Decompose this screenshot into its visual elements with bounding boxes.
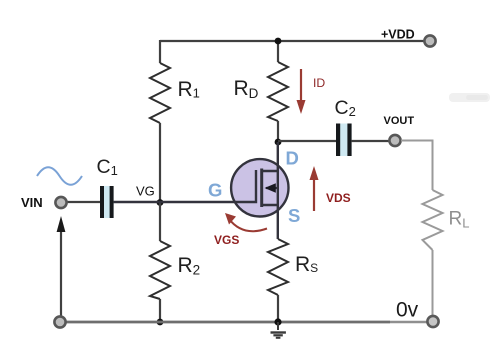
wire drain-source vertical through circle down to RS [277, 142, 279, 239]
wire RS bottom lead [277, 295, 279, 322]
wire R1 top lead [159, 40, 161, 63]
capacitor C1 [100, 186, 114, 218]
resistor RD [268, 62, 288, 121]
resistor R1 [150, 63, 170, 123]
transistor Q1 body arrow [265, 183, 279, 192]
svg-text:D: D [286, 148, 299, 169]
node junction dot top rail / RD [275, 38, 282, 45]
resistor RL [423, 190, 443, 250]
wire VOUT to RL (gray load branch) [401, 141, 433, 191]
wire VIN terminal to C1 [66, 201, 100, 203]
terminal +VDD [424, 35, 435, 46]
wire bottom rail [60, 321, 390, 324]
wire drain node to C2 [278, 140, 336, 142]
resistor RS [268, 239, 288, 295]
resistor R2 [150, 241, 170, 299]
svg-text:S: S [288, 205, 300, 226]
terminal bottom-left [54, 316, 65, 327]
node drain junction dot [275, 139, 282, 146]
wire RL bottom to 0v terminal [432, 250, 434, 316]
terminal 0v [427, 316, 438, 327]
wire RD bottom to drain node [277, 121, 279, 142]
faint ghost mark (editing remnant) [449, 93, 490, 102]
transistor Q1 drain stub [262, 170, 278, 172]
terminal VIN [55, 197, 66, 208]
wire R1 bottom to VG node [159, 123, 161, 203]
transistor Q1 channel bar [260, 169, 263, 208]
current arrow ID [297, 69, 306, 114]
wire gate lead and gate electrode bar [113, 170, 256, 202]
svg-text:0v: 0v [396, 299, 419, 322]
svg-text:VDS: VDS [326, 191, 351, 205]
wire top rail from R1 top to +VDD [160, 40, 424, 42]
ground symbol [271, 322, 286, 339]
transistor Q1 MOSFET body circle [231, 159, 288, 216]
svg-text:VIN: VIN [21, 195, 43, 210]
wire C2 to VOUT terminal [352, 140, 389, 142]
wire R2 bottom lead [159, 299, 161, 322]
svg-text:G: G [208, 180, 222, 201]
svg-text:VGS: VGS [214, 233, 239, 247]
node VG junction dot [157, 199, 164, 206]
arrow input direction up [57, 216, 66, 322]
terminal VOUT [389, 135, 400, 146]
wire VG node down to R2 [159, 203, 161, 241]
arrow VGS curved [225, 213, 267, 231]
svg-text:ID: ID [313, 76, 325, 90]
arrow VDS [310, 166, 319, 211]
node junction dot R2-bottom rail [157, 319, 164, 326]
capacitor C2 [336, 124, 352, 157]
svg-text:+VDD: +VDD [381, 28, 415, 42]
node ground junction dot [274, 318, 281, 325]
sine wave source icon [37, 167, 82, 185]
svg-text:VG: VG [136, 184, 155, 199]
wire RD top lead [277, 41, 279, 62]
transistor Q1 source stub [262, 204, 278, 206]
svg-text:VOUT: VOUT [384, 115, 415, 127]
